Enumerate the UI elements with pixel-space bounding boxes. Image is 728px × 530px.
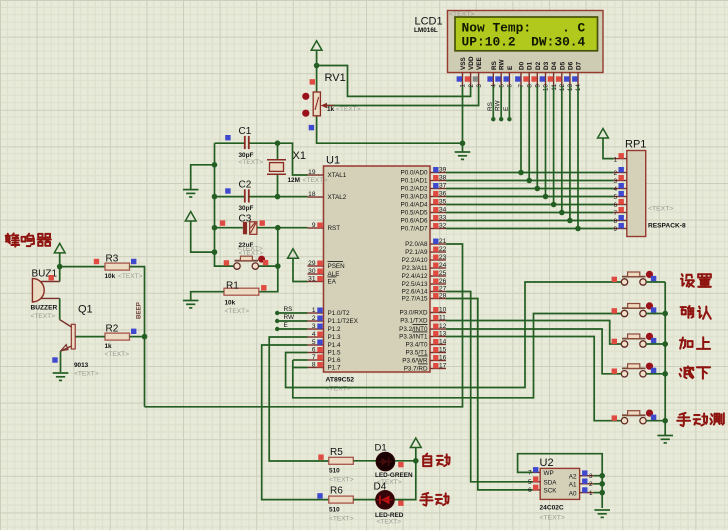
wire LCD D0 to P0.0 — [520, 86, 522, 173]
junction VSS/ground node — [460, 140, 466, 146]
svg-text:25: 25 — [439, 270, 447, 277]
junction U2 address/ground rail — [599, 481, 605, 487]
wire RP1 pin1 to VCC — [603, 138, 614, 159]
svg-text:<TEXT>: <TEXT> — [239, 159, 264, 166]
ground (buttons) — [657, 436, 673, 443]
svg-text:P0.7/AD7: P0.7/AD7 — [401, 225, 428, 232]
LCD pins 1-14 (stubs, pin names, pin numbers, state squares) — [457, 56, 583, 91]
wire MINUS button to rail — [646, 373, 665, 375]
svg-text:<TEXT>: <TEXT> — [329, 516, 354, 523]
svg-text:30pF: 30pF — [239, 205, 254, 212]
svg-text:P2.7/A15: P2.7/A15 — [402, 295, 428, 302]
svg-text:17: 17 — [439, 362, 447, 369]
svg-text:RESPACK-8: RESPACK-8 — [648, 223, 686, 230]
svg-text:RS: RS — [487, 102, 494, 111]
svg-text:33: 33 — [439, 214, 447, 221]
wire buzzer to Q1 collector — [59, 298, 61, 319]
svg-text:9013: 9013 — [74, 362, 89, 369]
svg-text:E: E — [284, 322, 288, 329]
label PLUS (Chinese) — [680, 337, 710, 349]
svg-text:<TEXT>: <TEXT> — [329, 477, 354, 484]
svg-text:10: 10 — [439, 306, 447, 313]
wire crystal bottom — [277, 174, 279, 196]
potentiometer RV1 (1k) — [302, 72, 361, 130]
net label RW — [495, 100, 502, 111]
wire P2.0 to BEEP net — [145, 244, 463, 407]
svg-text:PSEN: PSEN — [328, 263, 346, 270]
svg-text:39: 39 — [439, 166, 447, 173]
wire P3.1 to PLUS button — [446, 321, 621, 345]
wire P2.6 to U2 SDA — [446, 292, 533, 482]
svg-text:<TEXT>: <TEXT> — [648, 206, 673, 213]
svg-text:RS: RS — [491, 60, 498, 70]
svg-text:1k: 1k — [105, 343, 113, 350]
svg-text:D2: D2 — [535, 61, 542, 70]
wire U2 address pin — [593, 492, 602, 494]
wire U2 WP/A2/A1/A0 to ground — [518, 454, 603, 508]
svg-text:23: 23 — [439, 254, 447, 261]
wire LCD RS — [492, 86, 494, 119]
junction D1/P0.1 — [526, 178, 532, 184]
wire D1 to VCC node — [395, 460, 416, 462]
wire P0.5 line to RP1 pin 7 — [446, 212, 614, 214]
wire LCD D6 to P0.6 — [569, 86, 571, 221]
wire LCD VEE to RV1 wiper — [326, 86, 479, 106]
svg-text:<TEXT>: <TEXT> — [326, 386, 351, 393]
junction D5/P0.5 — [559, 210, 565, 216]
junction RST/reset button — [275, 263, 281, 269]
svg-text:D4: D4 — [551, 61, 558, 70]
svg-text:P3.7/RD: P3.7/RD — [404, 365, 428, 372]
U2 right pins: stubs, numbers, state squares — [580, 470, 594, 496]
svg-text:VEE: VEE — [476, 56, 483, 70]
svg-text:15: 15 — [439, 346, 447, 353]
svg-text:EA: EA — [328, 278, 337, 285]
junction D7/P0.7 — [575, 226, 581, 232]
wire C1 left to rail — [215, 142, 245, 144]
junction rail — [662, 371, 668, 377]
svg-text:P2.3/A11: P2.3/A11 — [402, 265, 428, 272]
svg-text:RP1: RP1 — [625, 139, 646, 151]
svg-text:510: 510 — [329, 467, 340, 474]
svg-text:9: 9 — [312, 222, 316, 229]
push button (MINUS) — [612, 363, 657, 377]
wire EA to VCC — [293, 258, 308, 281]
net label E — [503, 107, 510, 111]
junction rail/power branch — [212, 249, 218, 255]
svg-text:<TEXT>: <TEXT> — [118, 273, 143, 280]
junction buzzer node — [57, 264, 63, 270]
wire LCD D1 to P0.1 — [528, 86, 530, 181]
RP1 pins 2-9 stubs, numbers, state squares — [613, 167, 626, 233]
svg-text:8: 8 — [613, 218, 617, 225]
ground (Q1) — [53, 373, 69, 380]
svg-text:7: 7 — [312, 354, 316, 361]
wire C2/XTAL2 net — [249, 196, 308, 198]
svg-text:5: 5 — [613, 194, 617, 201]
label CONFIRM (Chinese) — [681, 306, 711, 319]
svg-text:6: 6 — [312, 346, 316, 353]
svg-text:6: 6 — [613, 202, 617, 209]
LCD <TEXT> placeholder — [449, 11, 474, 18]
push button (reset) — [224, 246, 269, 270]
svg-text:9: 9 — [613, 226, 617, 233]
wire rail to ground — [191, 165, 215, 189]
wire crystal top — [277, 143, 279, 160]
wire VCC rail for LEDs — [394, 448, 416, 500]
push button (CONFIRM) — [612, 302, 657, 316]
wire LCD D3 to P0.3 — [545, 86, 547, 197]
wire C2 left to rail — [215, 196, 245, 198]
wire LCD E — [508, 86, 510, 119]
junction rail/ground branch — [212, 162, 218, 168]
svg-text:14: 14 — [439, 338, 447, 345]
svg-text:P1.6: P1.6 — [328, 357, 341, 364]
svg-text:12M: 12M — [288, 177, 300, 184]
svg-text:U2: U2 — [540, 457, 554, 469]
wire P1.2 to E — [277, 328, 307, 330]
svg-text:R5: R5 — [330, 447, 343, 458]
wire C1/XTAL1 net — [249, 143, 308, 175]
svg-text:2: 2 — [312, 315, 316, 322]
wire R6 to D4 — [353, 499, 375, 501]
svg-text:P2.5/A13: P2.5/A13 — [402, 281, 428, 288]
wire button ground rail — [664, 282, 666, 433]
resistor R5 (510) — [318, 455, 353, 465]
junction XTAL1 node — [275, 140, 281, 146]
svg-text:P0.6/AD6: P0.6/AD6 — [401, 217, 428, 224]
svg-text:A1: A1 — [569, 482, 577, 489]
svg-text:AT89C52: AT89C52 — [326, 377, 355, 384]
svg-text:U1: U1 — [326, 155, 340, 167]
svg-text:P0.4/AD4: P0.4/AD4 — [401, 201, 428, 208]
svg-text:3: 3 — [589, 473, 593, 480]
ground (LCD VSS) — [455, 152, 471, 159]
ground (R1) — [183, 301, 199, 308]
svg-text:RW: RW — [284, 314, 295, 321]
power VCC (RV1) — [311, 41, 322, 51]
wire R5 to D1 — [353, 460, 376, 462]
wire P1.1 to RW — [277, 320, 307, 322]
svg-text:5: 5 — [528, 479, 532, 486]
svg-text:28: 28 — [439, 292, 447, 299]
junction D4/P0.4 — [551, 202, 557, 208]
net label E (U1 side) — [284, 322, 288, 329]
label MANUAL (Chinese) — [420, 493, 448, 506]
labels R6 / D4 / LED-RED — [329, 481, 404, 525]
wire ground rail (C1/C2/C3/reset) — [215, 143, 234, 266]
svg-text:C1: C1 — [239, 126, 252, 137]
junction R2/BEEP — [142, 334, 148, 340]
svg-text:10k: 10k — [225, 300, 236, 307]
wire CONFIRM button to rail — [646, 313, 665, 315]
svg-text:<TEXT>: <TEXT> — [540, 515, 565, 522]
wire P0.2 line to RP1 pin 4 — [446, 188, 614, 190]
svg-text:D1: D1 — [375, 443, 387, 454]
wire LCD D2 to P0.2 — [536, 86, 538, 189]
svg-text:R1: R1 — [226, 281, 239, 292]
svg-text:16: 16 — [439, 354, 447, 361]
svg-text:4: 4 — [312, 331, 316, 338]
wire ground stub — [462, 143, 464, 152]
net label BEEP — [136, 302, 143, 319]
junction D3/P0.3 — [543, 194, 549, 200]
resistor pack RP1 (RESPACK-8) — [625, 139, 646, 237]
svg-text:P2.2/A10: P2.2/A10 — [402, 257, 428, 264]
buzzer BUZ1 — [31, 269, 60, 321]
svg-text:31: 31 — [308, 275, 316, 282]
svg-text:30pF: 30pF — [239, 152, 254, 159]
svg-text:1: 1 — [613, 157, 617, 164]
wire LCD RW — [500, 86, 502, 119]
svg-text:1: 1 — [312, 307, 316, 314]
junction rail — [662, 418, 668, 424]
svg-text:5: 5 — [312, 339, 316, 346]
wire P1.0 to RS — [277, 312, 307, 314]
svg-text:13: 13 — [439, 330, 447, 337]
wire SET button to rail — [646, 281, 665, 283]
LED D1 (LED-GREEN) — [376, 452, 404, 471]
svg-text:P1.0/T2: P1.0/T2 — [328, 310, 351, 317]
capacitor C3 (22uF electrolytic) — [220, 214, 265, 257]
svg-text:D1: D1 — [527, 61, 534, 70]
label SET (Chinese) — [681, 274, 711, 287]
svg-text:RW: RW — [495, 100, 502, 111]
svg-text:P0.5/AD5: P0.5/AD5 — [401, 209, 428, 216]
wire P0.4 line to RP1 pin 6 — [446, 204, 614, 206]
wire LCD D7 to P0.7 — [577, 86, 579, 229]
wire RST vertical to R1 — [259, 228, 278, 292]
svg-text:RV1: RV1 — [325, 72, 346, 84]
label MINUS (Chinese) — [680, 366, 711, 378]
svg-text:SDA: SDA — [544, 480, 558, 487]
svg-text:C2: C2 — [239, 180, 252, 191]
svg-text:XTAL1: XTAL1 — [328, 172, 347, 179]
power VCC (reset) — [185, 212, 196, 222]
svg-text:4: 4 — [613, 186, 617, 193]
resistor R3 (10k) — [94, 254, 143, 280]
wire VCC to buzzer/R3 node — [59, 253, 61, 282]
svg-text:<TEXT>: <TEXT> — [238, 246, 263, 253]
svg-text:VSS: VSS — [460, 56, 467, 70]
junction rail/C3 — [212, 225, 218, 231]
power VCC (EA) — [288, 249, 299, 258]
svg-text:P2.1/A9: P2.1/A9 — [405, 249, 428, 256]
power VCC (LEDs) — [410, 438, 421, 448]
junction U2 address/ground rail — [599, 490, 605, 496]
svg-text:P1.2: P1.2 — [328, 326, 341, 333]
svg-text:UP:10.2 DW:30.4: UP:10.2 DW:30.4 — [462, 35, 586, 50]
wire VCC to RV1 top — [316, 51, 318, 93]
power VCC (RP1) — [598, 129, 609, 139]
ground (C1/C2 rail) — [183, 190, 199, 197]
capacitor C1 (30pF) — [225, 126, 263, 166]
resistor R2 (1k) — [105, 324, 137, 358]
svg-text:27: 27 — [439, 285, 447, 292]
eeprom U2 (24C02C) — [540, 457, 580, 522]
resistor R1 (10k) — [224, 281, 267, 315]
svg-text:<TEXT>: <TEXT> — [225, 308, 250, 315]
svg-text:R3: R3 — [106, 254, 119, 265]
node RS terminal — [491, 117, 495, 121]
svg-text:24C02C: 24C02C — [540, 505, 564, 512]
wire P0.6 line to RP1 pin 8 — [446, 220, 614, 222]
svg-text:P0.1/AD1: P0.1/AD1 — [401, 177, 428, 184]
wire P3.2 to MINUS button — [446, 329, 621, 374]
svg-text:X1: X1 — [293, 150, 306, 162]
wire rail ground stub — [664, 433, 666, 436]
label LCD1 — [414, 16, 443, 35]
svg-text:18: 18 — [308, 191, 316, 198]
svg-text:C3: C3 — [239, 214, 252, 225]
net label RS (U1 side) — [284, 306, 293, 313]
svg-text:12: 12 — [439, 323, 447, 330]
svg-text:SCK: SCK — [544, 488, 558, 495]
wire U2 address pin — [593, 483, 602, 485]
junction rail/C2 — [212, 194, 218, 200]
LCD display LCD1 (LM016L) — [448, 11, 604, 73]
junction VDD/RV1 node — [314, 63, 320, 69]
junction XTAL2 node — [275, 194, 281, 200]
wire R2 to BEEP — [130, 336, 145, 338]
wire VCC to rail — [191, 221, 215, 252]
svg-text:24: 24 — [439, 262, 447, 269]
svg-text:P0.0/AD0: P0.0/AD0 — [401, 169, 428, 176]
wire P1.3 to R5 (auto LED) — [269, 337, 329, 461]
svg-text:BUZZER: BUZZER — [31, 305, 58, 312]
svg-text:BEEP: BEEP — [136, 302, 143, 319]
svg-text:D5: D5 — [559, 61, 566, 70]
svg-text:XTAL2: XTAL2 — [328, 194, 347, 201]
junction RST node — [275, 225, 281, 231]
wire LCD D4 to P0.4 — [553, 86, 555, 205]
svg-text:<TEXT>: <TEXT> — [336, 106, 361, 113]
labels R5 / D1 / LED-GREEN — [329, 443, 413, 486]
net label RW (U1 side) — [284, 314, 295, 321]
svg-text:10k: 10k — [105, 273, 116, 280]
label MANUAL-TEST (Chinese) — [677, 413, 724, 426]
svg-text:Q1: Q1 — [78, 304, 93, 316]
resistor R6 (510) — [317, 493, 353, 503]
svg-text:19: 19 — [308, 169, 316, 176]
crystal X1 (12MHz) — [267, 150, 327, 184]
svg-text:35: 35 — [439, 198, 447, 205]
junction D6/P0.6 — [567, 218, 573, 224]
U1 left pins: stubs, numbers, names, state squares — [308, 169, 359, 371]
wire node to R3 — [60, 266, 105, 268]
svg-text:<TEXT>: <TEXT> — [377, 519, 402, 526]
svg-text:<TEXT>: <TEXT> — [74, 370, 99, 377]
push button (MANUAL-TEST) — [612, 410, 657, 424]
node E terminal — [507, 117, 511, 121]
wire Q1 emitter to ground — [60, 351, 62, 372]
svg-text:D4: D4 — [374, 481, 387, 492]
svg-text:LM016L: LM016L — [414, 27, 438, 34]
wire rail to C3 left — [215, 227, 243, 229]
svg-text:P2.0/A8: P2.0/A8 — [405, 241, 428, 248]
wire Q1 base to R2 — [75, 336, 105, 338]
svg-text:E: E — [503, 107, 510, 111]
svg-text:<TEXT>: <TEXT> — [449, 11, 474, 18]
svg-text:R2: R2 — [106, 324, 119, 335]
svg-text:P2.6/A14: P2.6/A14 — [402, 288, 428, 295]
node E (U1 side) — [275, 327, 279, 331]
wire P3.3 to MANUAL-TEST button — [446, 337, 621, 421]
svg-text:D0: D0 — [519, 61, 526, 70]
capacitor C2 (30pF) — [225, 180, 253, 213]
wire P1.6/P1.7 join — [292, 360, 294, 368]
wire P1.6 stub — [293, 359, 308, 361]
svg-text:P3.0/RXD: P3.0/RXD — [400, 309, 428, 316]
wire P0.1 line to RP1 pin 3 — [446, 180, 614, 182]
svg-text:P1.7: P1.7 — [328, 364, 341, 371]
wire RV1 bottom to ground node — [317, 116, 463, 143]
svg-text:510: 510 — [329, 506, 340, 513]
junction U2 address/ground rail — [599, 473, 605, 479]
svg-text:WP: WP — [544, 470, 554, 477]
svg-text:2: 2 — [589, 481, 593, 488]
svg-text:R6: R6 — [330, 486, 343, 497]
svg-text:1: 1 — [589, 490, 593, 497]
svg-text:D6: D6 — [567, 61, 574, 70]
svg-text:VDD: VDD — [468, 56, 475, 70]
wire LCD D5 to P0.5 — [561, 86, 563, 213]
svg-text:<TEXT>: <TEXT> — [303, 177, 328, 184]
node RW (U1 side) — [275, 319, 279, 323]
RP1 pin 1 stub and number — [613, 153, 626, 163]
svg-text:3: 3 — [312, 323, 316, 330]
LED D4 (LED-RED) — [376, 491, 404, 510]
wire MANUAL-TEST button to rail — [646, 420, 665, 422]
label AUTO (Chinese) — [423, 454, 449, 467]
svg-text:7: 7 — [613, 210, 617, 217]
U2 left pins: stubs, numbers, state squares — [528, 467, 540, 494]
svg-text:30: 30 — [308, 268, 316, 275]
node RS (U1 side) — [275, 311, 279, 315]
svg-text:22: 22 — [439, 246, 447, 253]
wire P1.7 to CONFIRM button — [293, 314, 622, 398]
svg-text:P1.5: P1.5 — [328, 349, 341, 356]
svg-text:P1.4: P1.4 — [328, 342, 341, 349]
svg-text:P3.4/T0: P3.4/T0 — [405, 341, 428, 348]
wire P0.3 line to RP1 pin 5 — [446, 196, 614, 198]
wire P1.5 to SET button — [286, 282, 622, 388]
svg-text:A2: A2 — [569, 474, 577, 481]
svg-text:11: 11 — [439, 314, 446, 321]
svg-text:38: 38 — [439, 174, 447, 181]
svg-text:P3.5/T1: P3.5/T1 — [405, 349, 428, 356]
wire LCD VSS to ground — [462, 86, 464, 143]
svg-text:E: E — [507, 65, 514, 70]
label BUZZER-TITLE (Chinese) — [6, 233, 51, 246]
wire C3 right to RST pin — [257, 227, 308, 229]
svg-text:LCD1: LCD1 — [415, 16, 443, 28]
svg-text:Now Temp: . C: Now Temp: . C — [462, 21, 586, 36]
svg-text:<TEXT>: <TEXT> — [31, 313, 56, 320]
svg-text:32: 32 — [439, 222, 447, 229]
node RW terminal — [499, 117, 503, 121]
svg-text:D3: D3 — [543, 61, 550, 70]
power VCC (buzzer) — [54, 243, 65, 253]
svg-text:8: 8 — [312, 361, 316, 368]
svg-text:P1.1/T2EX: P1.1/T2EX — [328, 318, 359, 325]
svg-text:P3.3/INT1: P3.3/INT1 — [399, 333, 428, 340]
svg-text:RST: RST — [328, 225, 341, 232]
wire PLUS button to rail — [646, 343, 665, 345]
svg-text:P0.3/AD3: P0.3/AD3 — [401, 193, 428, 200]
svg-text:37: 37 — [439, 182, 447, 189]
svg-text:P0.2/AD2: P0.2/AD2 — [401, 185, 428, 192]
